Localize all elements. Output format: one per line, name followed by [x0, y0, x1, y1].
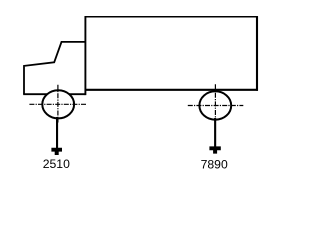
cargo box left edge [84, 16, 86, 95]
cargo box top edge [85, 16, 258, 18]
rear wheel [199, 91, 231, 119]
svg-text:2510: 2510 [43, 157, 70, 171]
cargo box bottom edge [85, 89, 259, 91]
rear axle horizontal centerline [188, 105, 244, 107]
front axle horizontal centerline [29, 103, 86, 105]
rear axle vertical centerline [214, 84, 216, 122]
rear axle load arrowhead [209, 146, 220, 153]
svg-text:7890: 7890 [201, 157, 228, 171]
rear axle load arrow shaft [214, 118, 216, 147]
cab bottom chassis line [23, 93, 85, 95]
front axle load arrow shaft [56, 117, 58, 149]
front axle vertical centerline [57, 85, 59, 123]
cargo box right edge [256, 16, 258, 91]
front axle load arrowhead [51, 148, 62, 155]
front wheel [42, 90, 74, 118]
cab outline [24, 42, 85, 94]
